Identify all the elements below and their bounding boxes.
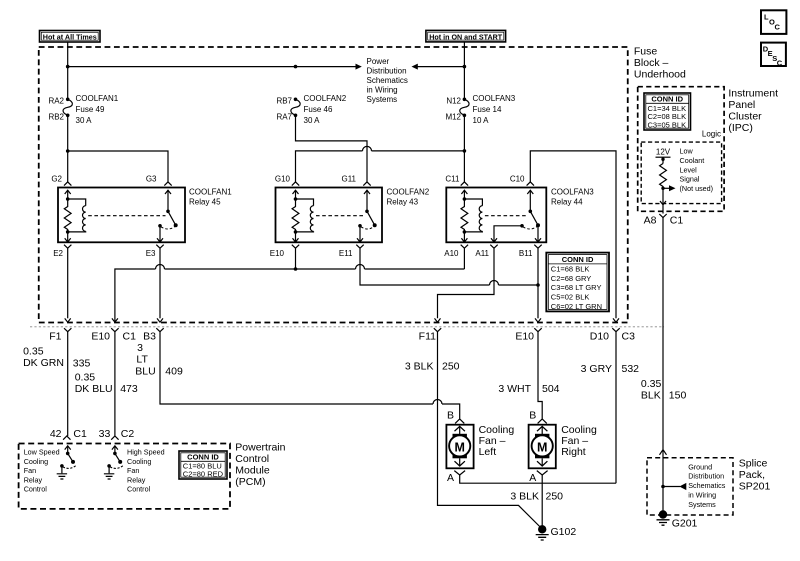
svg-text:in Wiring: in Wiring — [688, 491, 716, 500]
pin C11 — [445, 175, 460, 184]
svg-text:COOLFAN3: COOLFAN3 — [551, 188, 594, 197]
ground (low speed driver) — [57, 474, 67, 479]
connector 42 / C1 — [50, 428, 87, 440]
label Cooling Fan - Right — [561, 424, 597, 458]
svg-text:Schematics: Schematics — [367, 76, 408, 85]
value label 0.35 DK GRN — [23, 345, 64, 369]
pin RA7 — [276, 113, 292, 122]
svg-text:Fan: Fan — [127, 466, 139, 475]
svg-text:3 BLK: 3 BLK — [510, 490, 539, 502]
svg-text:G102: G102 — [551, 526, 577, 538]
value label 504 — [542, 383, 560, 395]
connector E10 / C1 — [91, 328, 136, 342]
value label 3 GRY — [581, 363, 612, 375]
svg-text:RB7: RB7 — [276, 97, 292, 106]
svg-text:in Wiring: in Wiring — [367, 86, 398, 95]
svg-text:LT: LT — [136, 354, 148, 366]
wire E11 to B11 bus (hop at A11) — [360, 248, 538, 285]
high speed relay control driver — [107, 446, 123, 474]
fuse 46 COOLFAN2 30A — [291, 98, 300, 118]
value label 0.35 BLK — [641, 378, 662, 402]
relay coil (Relay 45) — [64, 182, 86, 242]
connector E10 (fan) — [515, 328, 541, 342]
LOC reference box — [761, 10, 786, 34]
label Low Speed Cooling Fan Relay Control — [24, 448, 60, 494]
svg-text:Low Speed: Low Speed — [24, 448, 60, 457]
svg-text:Control: Control — [127, 485, 151, 494]
wire 250 BLK F11 to ground G102 — [438, 332, 543, 529]
svg-text:E3: E3 — [146, 249, 156, 258]
pin A (left fan) — [447, 472, 454, 484]
pin B (left fan) — [447, 410, 454, 422]
relay 44 lever to B11 — [535, 227, 541, 242]
svg-text:Right: Right — [561, 446, 586, 458]
svg-text:473: 473 — [120, 383, 138, 395]
svg-text:A: A — [529, 472, 536, 484]
svg-text:B: B — [529, 410, 536, 422]
svg-text:30 A: 30 A — [76, 116, 93, 125]
wire fan A ground bus — [460, 475, 616, 483]
label High Speed Cooling Fan Relay Control — [127, 448, 165, 494]
svg-text:Logic: Logic — [702, 129, 721, 138]
value label COOLFAN1 Fuse 49 30 A — [76, 94, 119, 125]
pin C10 — [510, 175, 525, 184]
wire 473 DK BLU E10-C1 to PCM 33 — [114, 332, 116, 436]
node hot-in-on junction — [463, 65, 467, 69]
ground (high speed driver) — [104, 474, 114, 479]
svg-text:DK GRN: DK GRN — [23, 357, 64, 369]
svg-text:E10: E10 — [515, 330, 534, 342]
svg-text:30 A: 30 A — [304, 116, 321, 125]
svg-text:B: B — [447, 410, 454, 422]
label Splice Pack, SP201 — [739, 458, 771, 493]
value label 3 BLK — [405, 360, 434, 372]
label COOLFAN2 Relay 43 — [387, 188, 430, 207]
pin M12 — [445, 113, 461, 122]
svg-text:COOLFAN2: COOLFAN2 — [304, 94, 347, 103]
relay coil (Relay 44) — [461, 182, 483, 242]
svg-text:A11: A11 — [475, 249, 489, 258]
pin A (right fan) — [529, 472, 536, 484]
svg-text:Relay 43: Relay 43 — [387, 198, 419, 207]
wire 532 GRY D10-C3 to fan A bus — [615, 332, 617, 484]
label COOLFAN1 Relay 45 — [189, 188, 232, 207]
svg-text:409: 409 — [165, 366, 183, 378]
svg-text:10 A: 10 A — [473, 116, 490, 125]
wire relay44 A10 drop — [463, 248, 465, 269]
wire splice internal — [662, 450, 664, 515]
svg-text:Fuse 46: Fuse 46 — [304, 105, 333, 114]
motor M cooling fan left — [446, 419, 473, 475]
pin E11 — [339, 249, 353, 258]
pin B11 — [519, 249, 533, 258]
svg-text:Pack,: Pack, — [739, 469, 765, 481]
low speed relay control driver — [60, 446, 76, 474]
terminal forks relay 44 bottom — [461, 245, 542, 249]
wire net E10/A10 bus to connector E10-C1 (hops at E3, E11) — [112, 265, 465, 323]
svg-text:Fuse 14: Fuse 14 — [473, 105, 502, 114]
svg-text:Schematics: Schematics — [688, 481, 726, 490]
svg-text:G3: G3 — [146, 175, 157, 184]
svg-text:Ground: Ground — [688, 462, 712, 471]
svg-text:E10: E10 — [270, 249, 285, 258]
label Low Coolant Level Signal (Not used) — [680, 147, 714, 194]
svg-text:G10: G10 — [275, 175, 291, 184]
node low coolant signal junction — [661, 187, 664, 190]
value label 532 — [622, 363, 640, 375]
svg-text:3 BLK: 3 BLK — [405, 360, 434, 372]
label G201 — [672, 518, 698, 530]
svg-text:D10: D10 — [590, 330, 609, 342]
label Instrument Panel Cluster (IPC) — [728, 88, 778, 135]
svg-text:Hot in ON and START: Hot in ON and START — [429, 33, 502, 42]
svg-text:N12: N12 — [446, 97, 461, 106]
node B11 junction — [536, 283, 540, 287]
svg-text:F1: F1 — [49, 330, 61, 342]
svg-text:A8: A8 — [644, 214, 657, 226]
svg-text:Fuse 49: Fuse 49 — [76, 105, 105, 114]
svg-text:Relay: Relay — [127, 475, 146, 484]
value label 3 BLK (ground) — [510, 490, 539, 502]
arrow to power distribution schematics (left) — [412, 64, 418, 70]
pin E10 — [270, 249, 285, 258]
wire fuse14 output bus to G10 and C11 (hop at G11) — [296, 146, 465, 182]
svg-text:Distribution: Distribution — [367, 67, 407, 76]
svg-text:Coolant: Coolant — [680, 156, 705, 165]
value label 250 (ground) — [546, 490, 564, 502]
svg-text:3: 3 — [137, 342, 143, 354]
svg-text:C11: C11 — [445, 175, 460, 184]
wire hot-at-all-times vertical feed — [67, 42, 69, 99]
svg-text:C1: C1 — [73, 428, 87, 440]
terminal forks relay 45 bottom — [64, 245, 164, 249]
connector F11 — [419, 328, 442, 342]
svg-text:Power: Power — [367, 57, 390, 66]
svg-text:33: 33 — [99, 428, 111, 440]
value label 250 — [442, 360, 460, 372]
svg-text:E10: E10 — [91, 330, 110, 342]
svg-text:Systems: Systems — [367, 95, 398, 104]
connector 33 / C2 — [99, 428, 135, 440]
node fuse49 branch junction — [66, 149, 70, 153]
pin N12 — [446, 97, 461, 106]
svg-text:0.35: 0.35 — [75, 372, 96, 384]
splice entry chevron — [660, 450, 667, 455]
svg-text:Relay: Relay — [24, 475, 43, 484]
svg-text:3 GRY: 3 GRY — [581, 363, 612, 375]
relay Relay 43 box — [276, 188, 383, 243]
svg-text:42: 42 — [50, 428, 62, 440]
svg-text:B11: B11 — [519, 249, 533, 258]
svg-text:504: 504 — [542, 383, 560, 395]
motor M cooling fan right — [529, 419, 556, 475]
svg-text:G2: G2 — [51, 175, 62, 184]
svg-text:Fan: Fan — [24, 466, 36, 475]
svg-text:DK BLU: DK BLU — [75, 383, 113, 395]
node hot bus junction at fuse 49 — [66, 65, 70, 69]
value label 3 WHT — [498, 383, 531, 395]
instrument panel cluster dashed box — [638, 87, 724, 212]
pin E2 — [53, 249, 63, 258]
svg-text:Control: Control — [235, 453, 269, 465]
label Logic — [702, 129, 721, 138]
svg-text:Block –: Block – — [634, 57, 669, 69]
svg-text:C3=05 BLK: C3=05 BLK — [648, 120, 687, 129]
svg-text:250: 250 — [546, 490, 564, 502]
pin G10 — [275, 175, 291, 184]
svg-text:250: 250 — [442, 360, 460, 372]
svg-text:SP201: SP201 — [739, 481, 771, 493]
svg-text:M: M — [454, 440, 464, 454]
relay coil-contact dashed link (Relay 43) — [316, 215, 365, 217]
relay switch contacts (Relay 43) — [358, 182, 377, 229]
svg-text:CONN ID: CONN ID — [651, 95, 683, 104]
ground G102 — [536, 525, 549, 540]
value label 150 — [669, 389, 687, 401]
wire relay43 E10 drop — [295, 248, 297, 269]
relay 44 NO contact to A11 — [491, 226, 522, 242]
wire E2 to connector F1 — [65, 248, 71, 322]
svg-text:RB2: RB2 — [48, 113, 64, 122]
svg-text:RA2: RA2 — [48, 97, 64, 106]
svg-text:C5=02 BLK: C5=02 BLK — [551, 293, 590, 302]
svg-text:C1: C1 — [123, 330, 137, 342]
svg-text:3 WHT: 3 WHT — [498, 383, 531, 395]
value label 473 — [120, 383, 138, 395]
svg-text:0.35: 0.35 — [641, 378, 662, 390]
12V supply rail — [656, 147, 671, 163]
pin RB7 — [276, 97, 292, 106]
arrow low coolant level signal — [663, 185, 676, 191]
svg-text:Powertrain: Powertrain — [235, 442, 285, 454]
label Hot at All Times — [40, 31, 101, 43]
svg-text:0.35: 0.35 — [23, 345, 44, 357]
pin A11 — [475, 249, 489, 258]
logic dashed box — [641, 142, 721, 204]
svg-text:Level: Level — [680, 165, 698, 174]
svg-text:Splice: Splice — [739, 458, 768, 470]
svg-text:BLU: BLU — [135, 366, 155, 378]
relay switch contacts (Relay 44) — [520, 182, 540, 229]
wire right fan A to ground G102 — [541, 475, 543, 529]
svg-text:COOLFAN3: COOLFAN3 — [473, 94, 516, 103]
svg-text:M12: M12 — [445, 113, 461, 122]
svg-text:Fuse: Fuse — [634, 46, 658, 58]
wire 409 LT BLU B3 to left fan B — [160, 332, 460, 419]
value label COOLFAN2 Fuse 46 30 A — [304, 94, 347, 125]
wire 504 WHT E10 to right fan B — [538, 332, 542, 419]
label Fuse Block - Underhood — [634, 46, 686, 81]
svg-text:G11: G11 — [341, 175, 356, 184]
splice pack dashed box — [647, 458, 733, 515]
svg-text:Underhood: Underhood — [634, 69, 686, 81]
svg-text:335: 335 — [73, 358, 91, 370]
svg-text:CONN ID: CONN ID — [187, 453, 219, 462]
svg-text:12V: 12V — [656, 147, 671, 156]
svg-text:Relay 45: Relay 45 — [189, 198, 221, 207]
pin RB2 — [48, 113, 64, 122]
svg-text:C3=68 LT GRY: C3=68 LT GRY — [551, 283, 602, 292]
svg-text:M: M — [537, 440, 547, 454]
svg-text:Cluster: Cluster — [728, 111, 762, 123]
svg-text:COOLFAN1: COOLFAN1 — [189, 188, 232, 197]
wire E3 to connector B3 — [157, 248, 163, 322]
label Cooling Fan - Left — [479, 424, 515, 458]
wire IPC logic output — [660, 188, 666, 213]
arrow to power distribution schematics (right) — [356, 64, 362, 70]
svg-text:Hot at All Times: Hot at All Times — [43, 33, 97, 42]
svg-text:Relay 44: Relay 44 — [551, 198, 583, 207]
value label 409 — [165, 366, 183, 378]
arrow to ground distribution schematics — [663, 483, 686, 490]
svg-text:Systems: Systems — [688, 500, 716, 509]
relay 43 NO contact to E11 — [357, 228, 363, 243]
svg-text:Cooling: Cooling — [24, 457, 48, 466]
connector F1 — [49, 328, 71, 342]
wire fuse49 output to relay45 G2/G3 — [68, 115, 168, 182]
svg-text:(IPC): (IPC) — [728, 122, 753, 134]
label Hot in ON and START — [426, 30, 506, 42]
wire 335 DK GRN F1 to PCM 42 — [67, 332, 69, 436]
svg-text:Instrument: Instrument — [728, 88, 778, 100]
svg-text:150: 150 — [669, 389, 687, 401]
svg-text:C6=02 LT GRN: C6=02 LT GRN — [551, 302, 602, 311]
svg-text:A10: A10 — [444, 249, 459, 258]
svg-text:Signal: Signal — [680, 175, 700, 184]
PCM dashed box — [19, 444, 230, 509]
node E10 bus junction — [294, 267, 298, 271]
value label 3 LT BLU — [135, 342, 155, 378]
DESC reference box — [761, 43, 786, 68]
fuse block underhood dashed box — [39, 47, 628, 323]
svg-text:RA7: RA7 — [276, 113, 292, 122]
wire fuse46 output to relay43 G11 — [296, 115, 368, 182]
value label 0.35 DK BLU — [75, 372, 113, 395]
svg-text:COOLFAN2: COOLFAN2 — [387, 188, 430, 197]
label Powertrain Control Module (PCM) — [235, 442, 285, 489]
node splice junction — [661, 485, 665, 489]
wire fuse14 to relay44 C11 — [463, 115, 465, 182]
label Ground Distribution Schematics in Wiring Systems — [688, 462, 726, 509]
svg-text:COOLFAN1: COOLFAN1 — [76, 94, 119, 103]
svg-text:B3: B3 — [143, 330, 156, 342]
relay 45 NO contact to E3 — [157, 228, 163, 243]
svg-text:C3: C3 — [622, 330, 636, 342]
pin G3 — [146, 175, 157, 184]
label Power Distribution Schematics in Wiring Systems — [367, 57, 408, 104]
pin G2 — [51, 175, 62, 184]
node hot bus junction at fuse 46 — [294, 65, 298, 69]
connector plane dashed line — [30, 326, 664, 328]
wire B11 to connector E10 — [535, 248, 541, 322]
connector B3 — [143, 328, 164, 342]
svg-text:BLK: BLK — [641, 389, 661, 401]
svg-text:532: 532 — [622, 363, 640, 375]
svg-text:C1=68 BLK: C1=68 BLK — [551, 265, 590, 274]
svg-text:C: C — [777, 59, 783, 68]
svg-text:(Not used): (Not used) — [680, 184, 714, 193]
svg-text:E11: E11 — [339, 249, 353, 258]
svg-text:C10: C10 — [510, 175, 525, 184]
fuse 49 COOLFAN1 30A — [63, 98, 72, 118]
svg-text:High Speed: High Speed — [127, 448, 165, 457]
terminal forks relay 43 bottom — [292, 245, 364, 249]
relay coil-contact dashed link (Relay 45) — [88, 215, 165, 217]
svg-text:Module: Module — [235, 465, 270, 477]
svg-text:CONN ID: CONN ID — [562, 255, 594, 264]
pin RA2 — [48, 97, 64, 106]
svg-text:G201: G201 — [672, 518, 698, 530]
relay Relay 44 box — [446, 188, 546, 243]
svg-text:F11: F11 — [419, 330, 436, 342]
ground G201 — [657, 510, 670, 525]
wire hot bus horizontal to power distribution — [68, 66, 356, 68]
fuse 14 COOLFAN3 10A — [460, 98, 469, 118]
svg-text:Panel: Panel — [728, 99, 755, 111]
label COOLFAN3 Relay 44 — [551, 188, 594, 207]
pin G11 — [341, 175, 356, 184]
wire hot-in-on vertical feed — [418, 42, 465, 99]
CONN ID table (IPC) — [644, 93, 691, 130]
CONN ID table (PCM) — [179, 451, 227, 479]
value label COOLFAN3 Fuse 14 10 A — [473, 94, 516, 125]
svg-text:C1: C1 — [670, 214, 684, 226]
wire A11 to connector F11 — [435, 248, 495, 322]
relay switch contacts (Relay 45) — [158, 182, 178, 229]
svg-text:A: A — [447, 472, 454, 484]
relay coil-contact dashed link (Relay 44) — [485, 215, 528, 217]
pin E3 — [146, 249, 156, 258]
relay Relay 45 box — [58, 188, 185, 243]
connector D10 / C3 — [590, 328, 635, 342]
wire relay44 C10 to connector D10/C3 — [530, 151, 619, 322]
wire 150 BLK A8-C1 to splice pack SP201 — [662, 218, 664, 450]
value label 335 — [73, 358, 91, 370]
svg-text:C: C — [775, 23, 781, 32]
pin B (right fan) — [529, 410, 536, 422]
svg-text:Cooling: Cooling — [127, 457, 151, 466]
label G102 — [551, 526, 577, 538]
svg-text:Left: Left — [479, 446, 497, 458]
svg-text:C2: C2 — [121, 428, 135, 440]
pin A10 — [444, 249, 459, 258]
svg-text:Control: Control — [24, 485, 48, 494]
svg-text:E2: E2 — [53, 249, 63, 258]
relay coil (Relay 43) — [292, 182, 314, 242]
svg-text:C2=68 GRY: C2=68 GRY — [551, 274, 592, 283]
svg-text:Low: Low — [680, 147, 694, 156]
svg-text:(PCM): (PCM) — [235, 476, 265, 488]
node fuse14 junction at C11 — [463, 149, 467, 153]
svg-text:C2=80 RED: C2=80 RED — [183, 470, 224, 479]
connector A8 / C1 — [644, 214, 684, 226]
resistor (low coolant level sensor pull-up) — [660, 164, 667, 189]
svg-text:Distribution: Distribution — [688, 472, 724, 481]
CONN ID table (underhood fuse block connectors) — [546, 253, 609, 312]
